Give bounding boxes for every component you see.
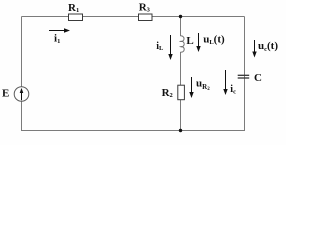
wire middle branch upper <box>180 17 182 37</box>
svg-text:uL(t): uL(t) <box>203 33 225 46</box>
voltage arrow uc <box>254 40 256 55</box>
wire middle branch lower <box>180 100 182 132</box>
svg-text:R3: R3 <box>139 1 151 13</box>
voltage arrow uR2 <box>191 77 193 95</box>
node junction top <box>179 15 182 18</box>
wire top right segment <box>152 16 245 18</box>
svg-text:iL: iL <box>156 41 164 52</box>
source E circle <box>14 87 29 102</box>
wire left branch lower <box>21 102 23 132</box>
wire middle branch between L and R2 <box>180 52 182 86</box>
current arrow i1 <box>49 30 67 32</box>
svg-text:R1: R1 <box>68 2 79 14</box>
wire left branch upper <box>21 17 23 88</box>
svg-text:C: C <box>254 72 262 84</box>
svg-text:i1: i1 <box>54 33 60 45</box>
capacitor C top plate <box>238 74 250 76</box>
current arrow ic <box>225 70 227 92</box>
svg-text:uR2: uR2 <box>196 77 210 92</box>
svg-text:R2: R2 <box>162 87 173 99</box>
current arrow iL <box>170 35 172 57</box>
resistor R1 body <box>69 14 83 21</box>
source E arrow <box>21 91 23 100</box>
svg-text:ic: ic <box>230 84 236 95</box>
svg-text:L: L <box>186 35 193 47</box>
svg-text:uc(t): uc(t) <box>258 40 278 53</box>
wire right branch <box>244 17 246 132</box>
node junction bottom <box>179 129 182 132</box>
resistor R3 body <box>139 14 153 21</box>
voltage arrow uL <box>198 33 200 49</box>
inductor L coil <box>181 36 185 52</box>
wire top middle segment <box>83 16 139 18</box>
resistor R2 body <box>178 85 185 100</box>
capacitor C bottom plate <box>238 77 250 79</box>
wire top left segment <box>22 16 69 18</box>
wire bottom <box>22 130 245 132</box>
svg-text:E: E <box>2 88 9 100</box>
